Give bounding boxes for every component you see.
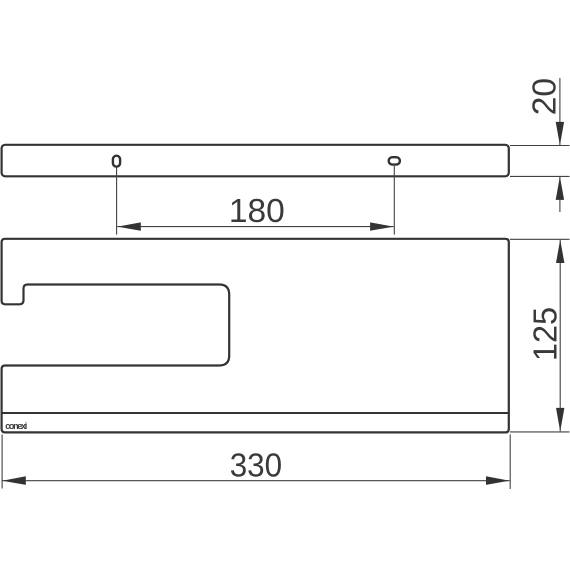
mounting hole left (round) (113, 156, 120, 167)
leader line from right hole (393, 166, 395, 235)
svg-text:125: 125 (527, 307, 564, 361)
dimension line 180 (117, 226, 393, 228)
svg-text:conexi: conexi (5, 421, 27, 431)
arrowhead 180 left (117, 222, 141, 230)
dimension line 330 (2, 480, 509, 482)
arrowhead 180 right (370, 222, 394, 230)
extension line plate bottom (right) (510, 431, 570, 433)
extension line 330 right (509, 435, 511, 490)
svg-text:180: 180 (229, 193, 285, 230)
arrowhead 330 right (486, 476, 510, 485)
extension line rail top (right) (510, 145, 570, 147)
arrowhead 125 top (pointing up) (556, 240, 564, 264)
dimension 20 upper leader (559, 78, 561, 145)
shelf plate top view with towel slot (2, 239, 509, 433)
extension line rail bottom (right) (510, 175, 570, 177)
mounting hole right (slotted) (389, 157, 400, 164)
dimension line 125 (559, 240, 561, 432)
leader line from left hole (116, 168, 118, 235)
dimension 20 lower leader (559, 177, 561, 213)
arrowhead 20 bottom (pointing up) (556, 176, 564, 200)
svg-text:20: 20 (527, 78, 564, 115)
arrowhead 330 left (2, 476, 26, 485)
arrowhead 125 bottom (pointing down) (556, 408, 564, 432)
arrowhead 20 top (pointing down) (556, 122, 564, 145)
extension line 330 left (1, 435, 3, 489)
front lip edge line (2, 412, 509, 414)
extension line plate top (right) (510, 238, 570, 240)
svg-text:330: 330 (230, 448, 282, 485)
wall rail side view (20mm profile) (2, 145, 509, 177)
